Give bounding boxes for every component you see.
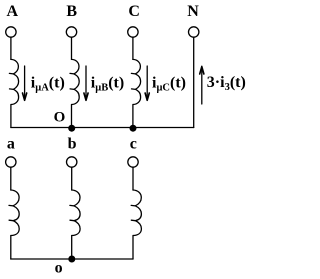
wire c terminal to coil (132, 168, 134, 190)
svg-text:O: O (54, 109, 66, 125)
svg-text:3·i3(t): 3·i3(t) (207, 74, 246, 93)
svg-text:b: b (68, 136, 77, 153)
terminal circle c (128, 157, 138, 167)
winding c (secondary phase c) (133, 190, 141, 236)
winding a crossover tick 1 (9, 204, 13, 207)
terminal circle C (128, 27, 138, 37)
terminal circle N (189, 27, 199, 37)
wire A terminal to coil (10, 38, 12, 60)
winding C crossover tick 2 (132, 88, 136, 91)
winding B crossover tick 1 (70, 72, 74, 75)
terminal circle b (67, 157, 77, 167)
wire a coil to bottom bus (10, 236, 12, 260)
neutral bus wire (top section) (11, 127, 194, 129)
svg-text:a: a (7, 136, 15, 153)
wire c coil to bottom bus (132, 236, 134, 260)
svg-text:iμC(t): iμC(t) (152, 74, 186, 93)
wire B coil to bus (71, 105, 73, 128)
winding B crossover tick 2 (70, 88, 74, 91)
junction dot at B on bus (68, 125, 75, 132)
wire N neutral conductor (193, 38, 195, 128)
junction dot at C on bus (130, 125, 137, 132)
terminal circle B (66, 27, 76, 37)
wire A coil to bus (10, 105, 12, 128)
svg-text:A: A (7, 3, 19, 20)
current arrow iμC (down) (146, 66, 148, 100)
wire C terminal to coil (132, 38, 134, 60)
current arrow 3·i3 (up) (201, 66, 203, 104)
svg-text:N: N (187, 3, 199, 20)
terminal circle a (6, 157, 16, 167)
current arrow iμB (down) (85, 66, 87, 100)
winding A crossover tick 1 (9, 72, 13, 75)
winding a (secondary phase a) (11, 190, 19, 236)
wire B terminal to coil (71, 38, 73, 60)
terminal circle A (6, 27, 16, 37)
winding b (secondary phase b) (72, 190, 80, 236)
svg-text:B: B (66, 3, 77, 20)
winding c crossover tick 2 (131, 219, 135, 222)
svg-text:C: C (128, 3, 140, 20)
svg-text:c: c (130, 136, 137, 153)
winding C (phase C magnetizing branch) (133, 59, 141, 104)
winding A crossover tick 2 (10, 88, 14, 91)
winding C crossover tick 1 (131, 72, 135, 75)
winding a crossover tick 2 (9, 219, 13, 222)
winding b crossover tick 2 (70, 219, 74, 222)
wire a terminal to coil (10, 168, 12, 190)
winding c crossover tick 1 (131, 204, 135, 207)
winding b crossover tick 1 (70, 204, 74, 207)
current arrow iμA (down) (24, 66, 26, 100)
bottom neutral bus wire (secondary star point) (11, 258, 133, 260)
svg-text:iμA(t): iμA(t) (31, 74, 65, 93)
wire b coil to bottom bus (71, 236, 73, 260)
winding B (phase B magnetizing branch) (72, 59, 80, 104)
winding A (phase A magnetizing branch) (11, 59, 19, 104)
svg-text:iμB(t): iμB(t) (91, 74, 124, 93)
wire b terminal to coil (71, 168, 73, 190)
wire C coil to bus (132, 105, 134, 128)
junction dot at b on bottom bus (68, 256, 75, 263)
svg-text:o: o (55, 260, 63, 277)
